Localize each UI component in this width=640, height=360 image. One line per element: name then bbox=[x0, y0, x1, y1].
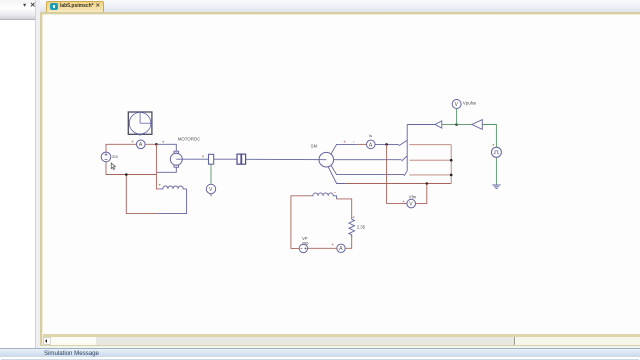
svg-text:Vfm: Vfm bbox=[409, 194, 417, 199]
polarity marks phase a bbox=[344, 141, 355, 143]
junction node neutral tap bbox=[426, 182, 429, 185]
left panel header bbox=[0, 0, 36, 20]
svg-text:320: 320 bbox=[112, 155, 118, 159]
Vfm left riser wire bbox=[387, 144, 407, 203]
phase b lead bbox=[334, 159, 402, 161]
gold document frame: top line bbox=[40, 12, 640, 14]
3-phase switch blade b bbox=[402, 156, 408, 161]
gold document frame: left border bbox=[40, 12, 42, 346]
shaft wire coupling to SM bbox=[246, 158, 327, 160]
svg-text:A: A bbox=[139, 142, 143, 148]
svg-text:V: V bbox=[455, 102, 459, 108]
shaft wire sensor to coupling bbox=[214, 158, 237, 160]
ground bbox=[492, 185, 500, 189]
polarity mark speed sensor bbox=[202, 155, 204, 157]
wire switch out c bbox=[409, 174, 451, 176]
on-off controller 2 bbox=[472, 120, 482, 130]
resistor R 2.35 bbox=[349, 217, 355, 238]
control wire switch to gate1 bbox=[407, 124, 435, 126]
panel header close button bbox=[30, 2, 37, 10]
junction node bus c bbox=[450, 174, 453, 177]
ammeter Is bbox=[357, 140, 375, 149]
scrollbar left arrow button bbox=[43, 337, 52, 345]
speed sensor W1 bbox=[209, 154, 214, 164]
svg-text:2.35: 2.35 bbox=[357, 224, 366, 229]
control wire gate1 to node bbox=[442, 124, 457, 126]
panel right border bbox=[35, 0, 36, 348]
active tab lab5.psimsch* bbox=[46, 1, 104, 13]
svg-text:SM: SM bbox=[311, 144, 318, 149]
field loop bottom-left wires bbox=[126, 175, 157, 214]
field wire vertical from junction bbox=[156, 144, 160, 189]
wire ammeter to VP source bbox=[308, 247, 337, 249]
control wire node to gate2 bbox=[457, 124, 472, 126]
ammeter If bbox=[337, 244, 345, 252]
svg-text:A: A bbox=[339, 246, 343, 252]
gold strip above scrollbar bbox=[43, 334, 640, 337]
wire VP source left leg bbox=[291, 196, 299, 249]
on-off controller 1 bbox=[435, 121, 442, 128]
voltmeter Vpulse bbox=[452, 100, 461, 109]
panel header menu button bbox=[23, 2, 30, 10]
light row below gold bbox=[40, 346, 640, 348]
wire switch out a bbox=[409, 144, 451, 146]
wire source to ground bbox=[495, 157, 497, 184]
scrollbar thumb bbox=[96, 337, 515, 345]
Vfm right riser wire bbox=[416, 184, 427, 204]
control wire gate2 to source bbox=[482, 125, 496, 148]
neutral lead bbox=[328, 167, 345, 184]
junction node armature+ bbox=[155, 143, 158, 146]
probe lead Vpulse bbox=[456, 109, 458, 125]
dc source VP bbox=[299, 244, 307, 252]
track right of thumb bbox=[516, 337, 640, 345]
SM field inductor bbox=[311, 193, 337, 199]
svg-text:MOTORDC: MOTORDC bbox=[178, 136, 201, 141]
junction node bus b bbox=[450, 159, 453, 162]
svg-text:Vpulse: Vpulse bbox=[463, 101, 477, 106]
wire ammeter to junction bbox=[145, 143, 156, 145]
Simulation Message bar bbox=[0, 348, 640, 357]
left docked panel bbox=[0, 0, 36, 348]
svg-text:V: V bbox=[209, 187, 213, 193]
field loop right/bottom wires bbox=[157, 189, 187, 214]
dc motor MOTORDC bbox=[170, 151, 208, 167]
phase c lead bbox=[331, 165, 404, 174]
junction node gating bbox=[455, 123, 458, 126]
polarity mark field ammeter bbox=[332, 244, 340, 246]
short-circuit bus vertical bbox=[450, 145, 452, 184]
wire source top to ammeter bbox=[106, 144, 137, 152]
junction node source return bbox=[125, 173, 128, 176]
simulation control clock block bbox=[128, 112, 152, 136]
phase a lead bbox=[331, 144, 357, 154]
tab title text bbox=[60, 3, 100, 10]
junction node phase a tap bbox=[385, 143, 388, 146]
dc source V1 bbox=[101, 152, 111, 162]
wire resistor to ammeter bbox=[345, 235, 352, 248]
polarity mark bbox=[162, 141, 164, 143]
SM field coil lead left bbox=[291, 195, 311, 197]
gold line below scrollbar bbox=[40, 345, 640, 347]
horizontal scrollbar track bbox=[43, 337, 640, 345]
3-phase switch blade a bbox=[399, 140, 407, 146]
svg-text:Is: Is bbox=[369, 133, 372, 138]
svg-text:V: V bbox=[409, 202, 413, 208]
document tab strip bbox=[40, 0, 640, 12]
mouse cursor bbox=[111, 163, 115, 170]
switch linkage bus bbox=[406, 125, 408, 171]
polarity mark Vfm bbox=[403, 201, 405, 203]
wire switch out b bbox=[409, 159, 451, 161]
square-wave source Vgate bbox=[491, 147, 501, 157]
field inductor Lf bbox=[159, 184, 187, 189]
message area below bar bbox=[0, 357, 640, 360]
neutral bus wire bbox=[345, 183, 451, 185]
field wire to resistor bbox=[337, 199, 352, 217]
svg-text:A: A bbox=[369, 142, 373, 148]
wire source bottom bbox=[106, 162, 156, 175]
voltmeter Vfm bbox=[407, 199, 416, 208]
wire junction to motor top bbox=[156, 144, 176, 151]
3-phase switch blade c bbox=[404, 171, 407, 176]
ammeter A1 bbox=[132, 140, 146, 149]
voltmeter probe V1 speed bbox=[206, 184, 215, 196]
tab close x bbox=[96, 3, 102, 10]
polarity mark gating source bbox=[492, 144, 494, 146]
wire Is to switch bbox=[375, 143, 399, 145]
tab file icon bbox=[50, 3, 58, 10]
wire motor bottom bbox=[157, 167, 176, 172]
mechanical coupling block bbox=[237, 154, 246, 164]
sensor output wire bbox=[210, 164, 212, 184]
polarity mark resistor bbox=[353, 216, 355, 218]
synchronous machine SM bbox=[319, 152, 334, 167]
splitter gap bbox=[36, 0, 40, 348]
